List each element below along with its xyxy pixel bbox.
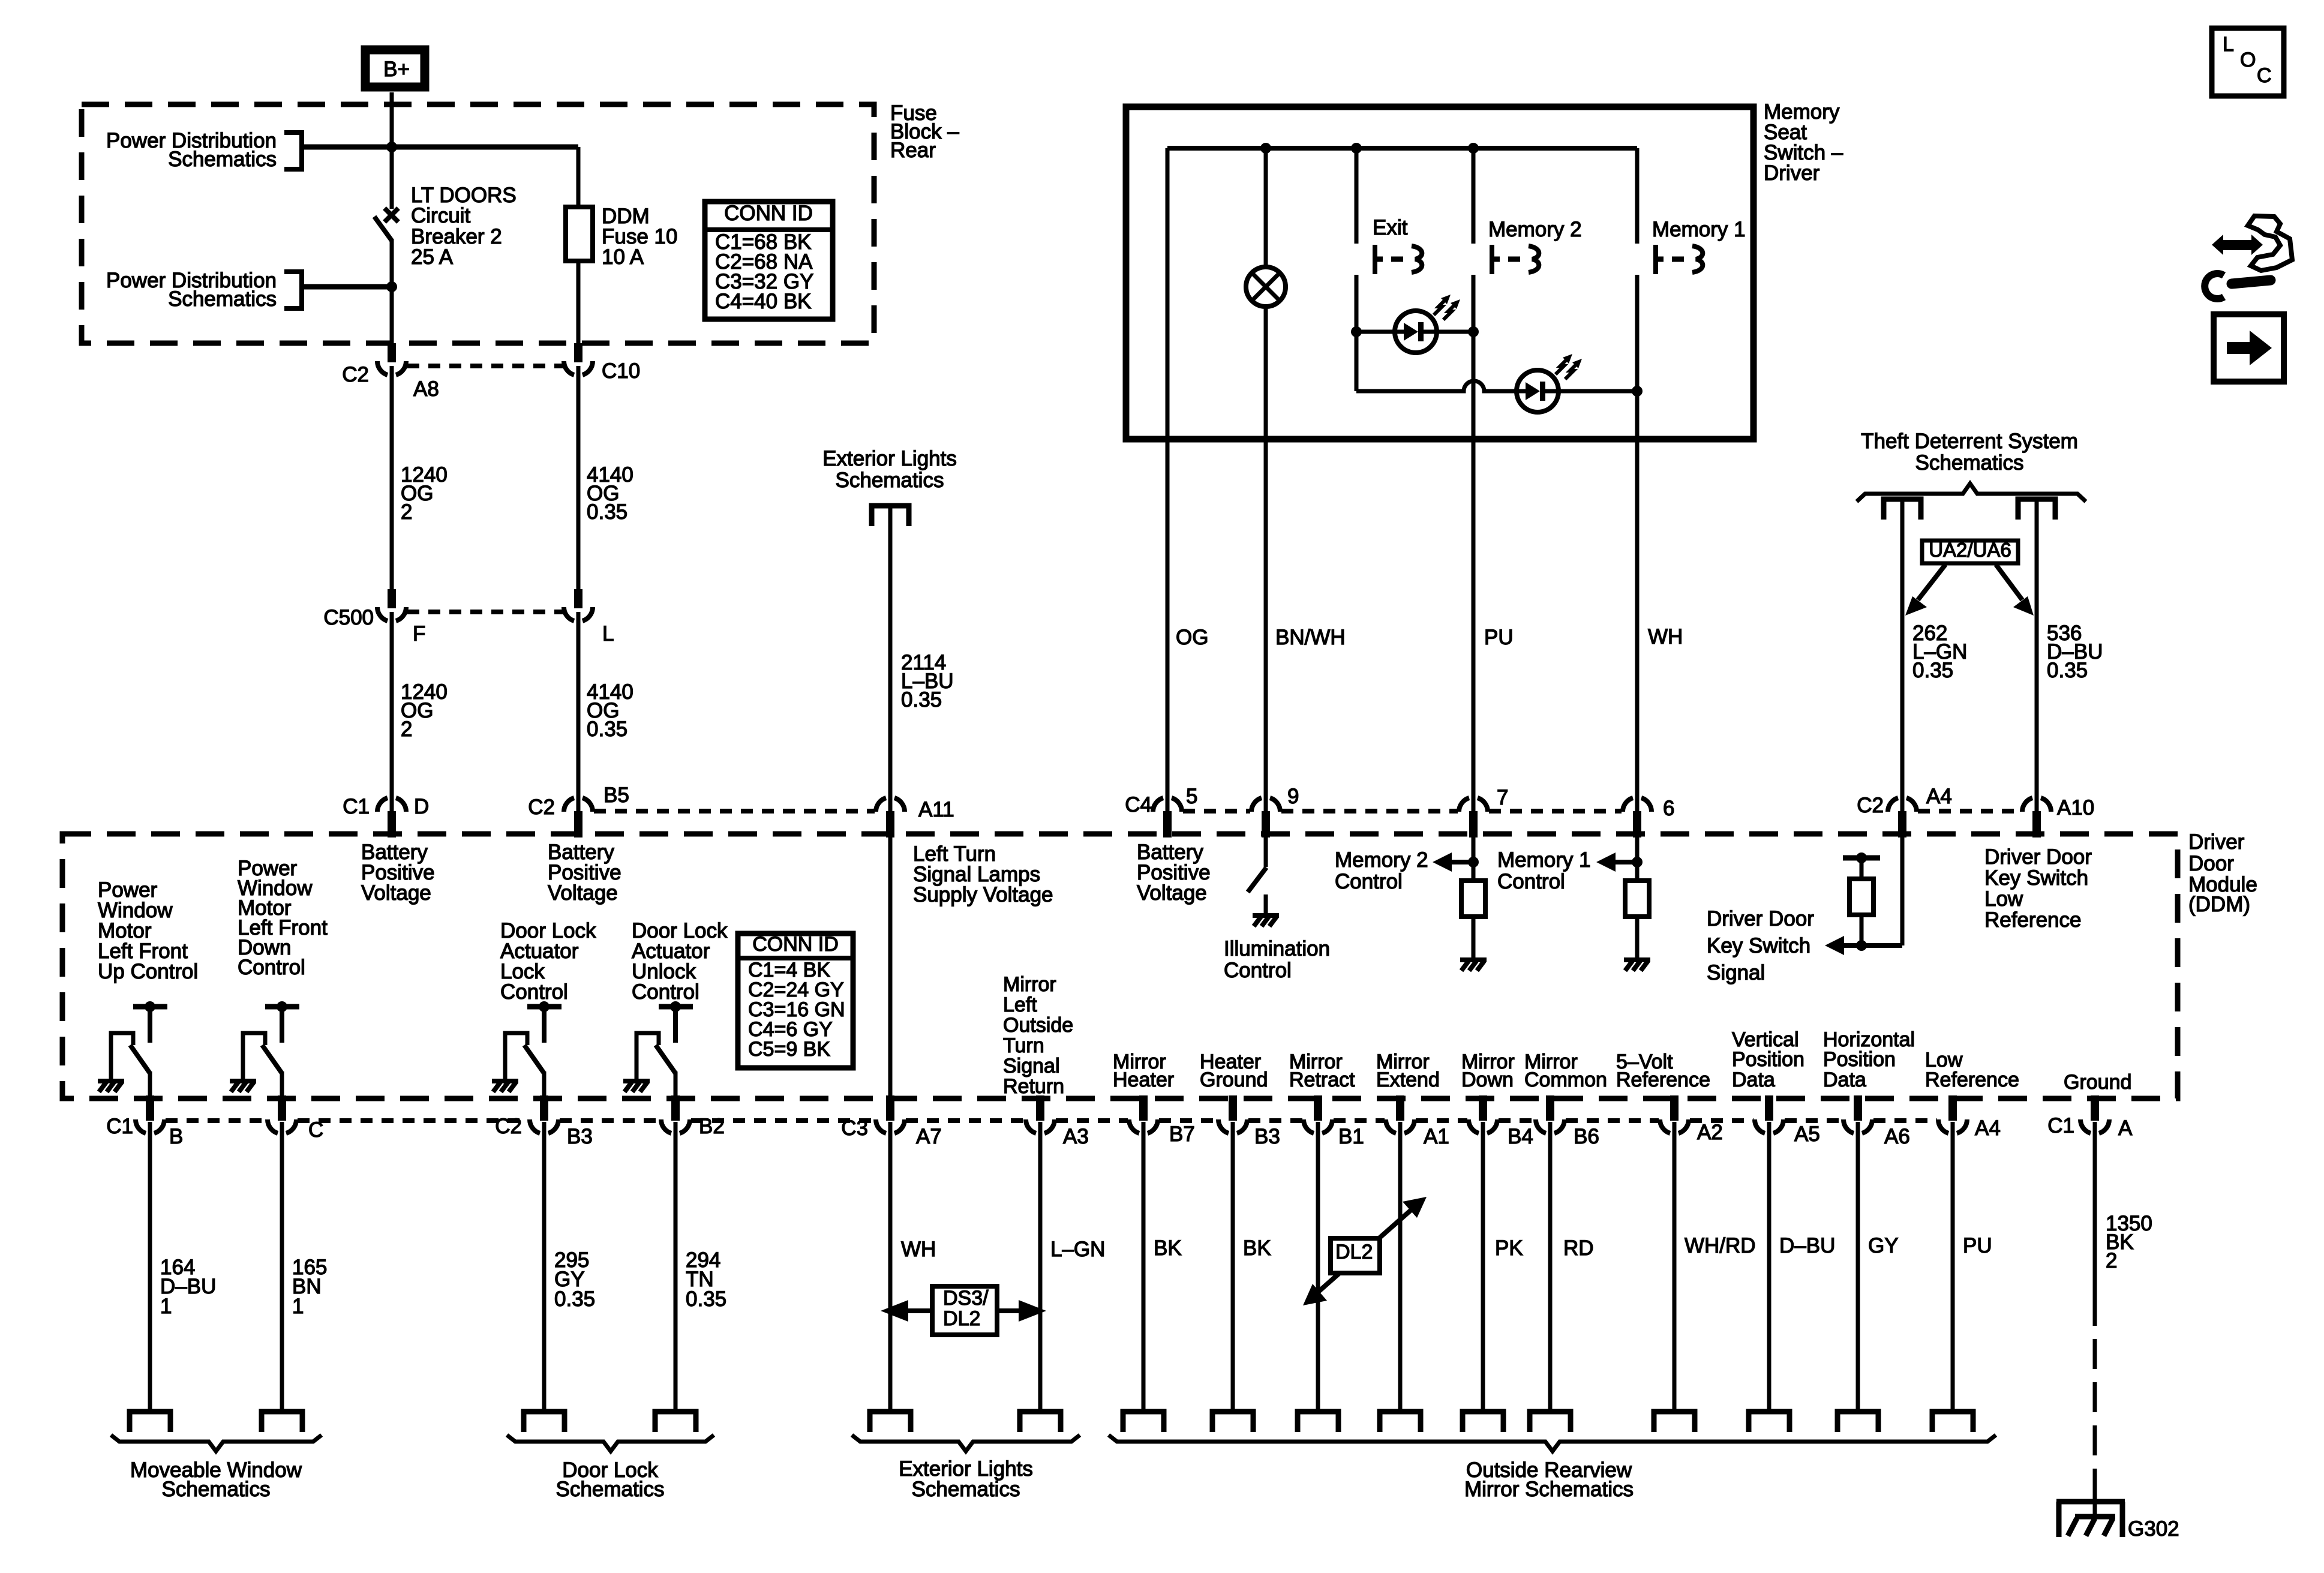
terminal PU [1932, 1412, 1973, 1432]
svg-text:Position: Position [1732, 1048, 1804, 1071]
terminal mirror extend [1380, 1412, 1421, 1432]
ground for power window down [230, 1081, 256, 1092]
switch Memory 1 [1656, 245, 1703, 274]
svg-text:B+: B+ [383, 58, 410, 81]
connector A4 [1938, 1095, 2001, 1140]
connector C10 fuse block [564, 343, 640, 383]
svg-text:Reference: Reference [1984, 908, 2081, 932]
wire B+ down to breaker [390, 92, 394, 209]
connector A11 [876, 798, 954, 837]
ground memory 1 [1624, 960, 1650, 971]
connector A1 [1386, 1095, 1449, 1148]
svg-text:Signal: Signal [1707, 961, 1765, 984]
svg-text:B1: B1 [1338, 1125, 1364, 1148]
terminal 164 D-BU [130, 1412, 170, 1432]
svg-text:PK: PK [1495, 1236, 1523, 1260]
svg-text:Schematics: Schematics [836, 469, 944, 492]
ground memory 2 [1460, 960, 1487, 971]
wire LED1 row [1356, 330, 1395, 334]
brace theft deterrent [1857, 484, 2086, 502]
svg-text:A5: A5 [1794, 1122, 1820, 1146]
svg-text:Schematics: Schematics [168, 287, 277, 311]
svg-text:7: 7 [1497, 786, 1508, 809]
svg-text:Key Switch: Key Switch [1984, 866, 2088, 890]
svg-text:L: L [2223, 33, 2234, 56]
terminal L-GN [1020, 1412, 1061, 1432]
svg-text:Extend: Extend [1376, 1068, 1440, 1091]
terminal RD [1530, 1412, 1571, 1432]
connector C2/B5 [528, 784, 629, 837]
svg-text:2: 2 [401, 500, 412, 524]
DS3/DL2 option box with arrows [881, 1286, 1046, 1335]
svg-text:C2: C2 [528, 795, 555, 819]
svg-text:B: B [169, 1125, 183, 1148]
wire WH/RD [1673, 1122, 1677, 1412]
connector dash line top row [594, 809, 2021, 813]
wire memory1 resistor to ground [1635, 917, 1640, 959]
terminal WH [870, 1412, 911, 1432]
svg-text:G302: G302 [2128, 1517, 2179, 1541]
connector B4 [1469, 1095, 1533, 1148]
svg-text:0.35: 0.35 [901, 688, 942, 712]
svg-text:Circuit: Circuit [411, 204, 470, 227]
svg-text:Outside: Outside [1003, 1014, 1073, 1037]
svg-text:A4: A4 [1975, 1116, 2001, 1140]
circuit breaker CB2 blade [374, 217, 392, 241]
wire memory2 resistor to ground [1472, 917, 1476, 959]
svg-text:C1: C1 [106, 1115, 133, 1138]
switch illumination control [1248, 837, 1266, 914]
svg-text:B2: B2 [699, 1115, 725, 1138]
svg-text:9: 9 [1287, 785, 1299, 808]
terminal WH/RD [1654, 1412, 1695, 1432]
svg-text:Driver Door: Driver Door [1984, 845, 2092, 869]
svg-text:Low: Low [1984, 887, 2023, 911]
svg-text:Up Control: Up Control [98, 960, 198, 983]
svg-text:Voltage: Voltage [1137, 881, 1207, 905]
LED memory indicator [1517, 354, 1582, 412]
svg-text:1: 1 [160, 1295, 172, 1318]
wire A11 to C3 A7 [888, 837, 893, 1097]
wire 1350 BK 2 ground wire [2093, 1122, 2097, 1296]
svg-text:Memory 2: Memory 2 [1335, 848, 1428, 872]
wire bus inside memory switch [1167, 146, 1637, 151]
connector C1/D [343, 795, 429, 837]
brace moveable window [111, 1435, 322, 1451]
wire fuse to connector C10 [577, 147, 581, 207]
svg-text:Signal: Signal [1003, 1055, 1060, 1077]
svg-text:A1: A1 [1424, 1125, 1449, 1148]
wire BK heater ground [1231, 1122, 1235, 1412]
terminal GY [1837, 1412, 1878, 1432]
svg-text:Position: Position [1823, 1048, 1896, 1071]
off-page symbol theft deterrent right [2018, 499, 2055, 520]
wire T-bar to resistor [1860, 858, 1864, 879]
resistor memory 2 [1461, 881, 1485, 917]
svg-text:C4=40 BK: C4=40 BK [715, 290, 812, 313]
svg-text:Voltage: Voltage [548, 881, 618, 905]
wire mirror extend [1398, 1122, 1403, 1412]
connector A6 [1843, 1095, 1910, 1148]
svg-text:5: 5 [1186, 785, 1197, 808]
wire pin7 to memory2 resistor [1472, 837, 1476, 881]
svg-text:RD: RD [1563, 1236, 1594, 1260]
svg-text:C2: C2 [1857, 794, 1884, 817]
switch Exit [1375, 245, 1422, 274]
wire feed bus y=245 from bracket to fuse [302, 145, 578, 150]
node memory2 control junction [1468, 857, 1479, 867]
brace door lock [507, 1435, 714, 1451]
svg-text:A7: A7 [916, 1125, 942, 1148]
svg-text:UA2/UA6: UA2/UA6 [1929, 539, 2011, 561]
resistor memory 1 [1625, 881, 1649, 917]
svg-text:Retract: Retract [1289, 1068, 1355, 1091]
svg-text:L: L [602, 622, 614, 646]
node memory1 control junction [1632, 857, 1643, 867]
node bus dot exit [1351, 143, 1362, 154]
svg-text:Left: Left [1003, 993, 1037, 1016]
terminal D-BU [1749, 1412, 1789, 1432]
wire BK mirror heater [1142, 1122, 1146, 1412]
wire PU [1951, 1122, 1955, 1412]
svg-text:D–BU: D–BU [1779, 1234, 1835, 1257]
LOC icon box [2212, 28, 2284, 96]
arrow UA2 to left wire [1905, 565, 1945, 616]
svg-text:Key Switch: Key Switch [1707, 934, 1810, 957]
svg-text:B6: B6 [1574, 1125, 1599, 1148]
connector dash line C500-L [407, 610, 563, 614]
svg-text:OG: OG [1176, 626, 1208, 649]
wire breaker to connector C2 [390, 239, 394, 344]
wire exit branch upper [1355, 148, 1359, 244]
arrow memory 2 control [1433, 852, 1473, 872]
node bus dot lamp [1260, 143, 1271, 154]
svg-text:2: 2 [401, 718, 412, 741]
svg-text:Memory 1: Memory 1 [1652, 218, 1746, 241]
wire lamp to pin 9 [1264, 306, 1268, 811]
node memory2 LED junction [1468, 326, 1479, 337]
svg-text:Exit: Exit [1373, 216, 1408, 239]
svg-text:0.35: 0.35 [1912, 659, 1953, 682]
svg-text:WH/RD: WH/RD [1685, 1234, 1756, 1257]
bracket Power Distribution 2 [284, 272, 302, 308]
svg-text:Driver: Driver [1764, 161, 1820, 185]
wire mirror retract [1316, 1122, 1320, 1412]
fuse DDM Fuse 10 [566, 207, 593, 261]
svg-text:Driver: Driver [2188, 830, 2245, 854]
CONN ID table (fuse block) [705, 202, 833, 319]
connector dash line C2-C10 [407, 364, 563, 368]
arrow memory 1 control [1596, 852, 1637, 872]
svg-text:Return: Return [1003, 1075, 1064, 1098]
wire memory1 to pin 6 [1635, 275, 1640, 811]
svg-text:L–GN: L–GN [1050, 1238, 1105, 1261]
connector C1/B [106, 1095, 183, 1148]
svg-text:Control: Control [1335, 870, 1403, 893]
svg-text:Schematics: Schematics [162, 1478, 271, 1501]
node junction on feed wire 1 [386, 142, 397, 152]
svg-text:Schematics: Schematics [1915, 451, 2024, 475]
svg-text:Mirror: Mirror [1003, 973, 1056, 996]
CONN ID table (DDM) [738, 933, 853, 1068]
fuse block dashed box [82, 104, 874, 343]
svg-text:Exterior Lights: Exterior Lights [822, 447, 957, 470]
svg-text:A11: A11 [918, 798, 954, 821]
svg-text:Reference: Reference [1925, 1068, 2019, 1091]
wire memory2 upper [1472, 148, 1476, 244]
svg-text:0.35: 0.35 [686, 1287, 726, 1311]
wire LED2 rail with hop [1356, 381, 1517, 391]
wire 262 L-GN to C2 A4 [1900, 502, 1905, 811]
switch door lock [505, 1001, 562, 1097]
wire 2114 L-BU to A11 [888, 508, 893, 811]
wire D-BU [1767, 1122, 1771, 1412]
connector dash line bottom row [166, 1118, 1937, 1123]
brace outside rearview mirror [1109, 1435, 1996, 1451]
wire lamp upper [1264, 148, 1268, 268]
svg-text:0.35: 0.35 [2047, 659, 2088, 682]
svg-text:DL2: DL2 [943, 1307, 980, 1330]
svg-text:GY: GY [1868, 1234, 1899, 1257]
connector B1 [1304, 1095, 1364, 1148]
terminal 295 GY [524, 1412, 565, 1432]
svg-text:Theft Deterrent System: Theft Deterrent System [1861, 430, 2078, 453]
node memory1 rail junction [1632, 386, 1643, 397]
svg-text:Control: Control [500, 980, 568, 1004]
switch power window down [243, 1001, 299, 1097]
svg-text:DL2: DL2 [1335, 1241, 1373, 1263]
svg-text:Schematics: Schematics [168, 148, 277, 171]
connector A10 [2022, 796, 2094, 837]
wire L-GN [1038, 1122, 1043, 1412]
svg-text:Control: Control [1224, 959, 1292, 982]
connector B6 [1536, 1095, 1599, 1148]
terminal mirror retract [1298, 1412, 1338, 1432]
svg-text:Reference: Reference [1616, 1068, 1710, 1091]
ground G302 [2056, 1482, 2125, 1537]
ground for door unlock [623, 1081, 650, 1092]
lamp illumination [1246, 267, 1286, 307]
wire feed y=478 to breaker [302, 284, 392, 290]
wire memory1 upper [1635, 148, 1640, 244]
connector C2/A4 [1857, 785, 1952, 837]
svg-text:BK: BK [1154, 1236, 1182, 1260]
svg-text:B7: B7 [1169, 1122, 1195, 1146]
svg-text:Common: Common [1524, 1068, 1607, 1091]
svg-text:C4: C4 [1125, 793, 1152, 816]
arrow driver door key switch signal [1825, 936, 1902, 955]
connector pin 7 [1459, 786, 1508, 837]
svg-text:WH: WH [1648, 625, 1683, 649]
wire pin6 to memory1 resistor [1635, 837, 1640, 881]
terminal 294 TN [655, 1412, 696, 1432]
svg-text:0.35: 0.35 [554, 1287, 595, 1311]
svg-text:Mirror Schematics: Mirror Schematics [1464, 1478, 1634, 1501]
ground illumination [1253, 915, 1279, 926]
wire L to C2 B5 circuit 4140 OG [577, 612, 581, 811]
terminal BK mirror heater [1123, 1412, 1164, 1432]
wire WH [888, 1122, 893, 1412]
wire 295 GY [542, 1122, 547, 1412]
arrow icon box [2214, 314, 2284, 382]
svg-text:BK: BK [1243, 1236, 1271, 1260]
svg-text:C10: C10 [602, 359, 640, 383]
svg-text:A8: A8 [413, 377, 439, 401]
connector C3/A7 [841, 1095, 942, 1148]
connector C [268, 1095, 323, 1142]
node exit LED junction [1351, 326, 1362, 337]
svg-text:C2: C2 [495, 1115, 522, 1138]
wire C2 A4 to key switch node [1900, 837, 1905, 945]
svg-text:O: O [2240, 49, 2256, 71]
connector C2/A8 fuse block [342, 343, 439, 401]
svg-text:Schematics: Schematics [556, 1478, 665, 1501]
svg-text:Door: Door [2188, 852, 2234, 875]
connector pin 6 [1623, 797, 1674, 837]
svg-text:DS3/: DS3/ [943, 1287, 989, 1310]
connector B7 [1129, 1095, 1195, 1146]
resistor key switch [1849, 879, 1873, 915]
svg-text:1: 1 [292, 1295, 304, 1318]
arrow UA6 to right wire [1996, 565, 2034, 616]
svg-text:10 A: 10 A [602, 245, 644, 269]
key switch T-bar [1843, 852, 1880, 863]
wire PK [1481, 1122, 1485, 1412]
svg-text:Driver Door: Driver Door [1707, 907, 1814, 930]
svg-text:CONN ID: CONN ID [724, 202, 813, 225]
svg-text:Illumination: Illumination [1224, 937, 1330, 960]
wire 165 BN [280, 1122, 284, 1412]
node key switch signal [1856, 940, 1867, 951]
svg-text:Memory 1: Memory 1 [1497, 848, 1591, 872]
svg-text:PU: PU [1963, 1234, 1992, 1257]
off-page symbol Exterior Lights [872, 506, 909, 526]
connector C1/A [2047, 1095, 2133, 1140]
wire memory2 to pin 7 [1472, 275, 1476, 811]
connector pin 9 [1251, 785, 1299, 837]
B+ battery feed symbol [365, 50, 425, 87]
UA2/UA6 option box [1922, 539, 2018, 563]
connector C500/F [323, 589, 425, 646]
terminal BK heater ground [1212, 1412, 1253, 1432]
ground for power window up [98, 1081, 124, 1092]
svg-text:B3: B3 [1254, 1125, 1280, 1148]
svg-text:A6: A6 [1884, 1125, 1910, 1148]
svg-text:A10: A10 [2057, 796, 2094, 819]
svg-text:Rear: Rear [890, 139, 936, 162]
ground for door lock [492, 1081, 518, 1092]
switch door unlock [636, 1001, 693, 1097]
svg-text:Control: Control [238, 956, 305, 979]
svg-text:F: F [413, 622, 425, 646]
wire 536 D-BU to A10 [2035, 502, 2039, 811]
svg-text:BN/WH: BN/WH [1275, 626, 1346, 649]
wire OG bus to pin 5 [1166, 148, 1170, 811]
svg-text:Memory 2: Memory 2 [1488, 218, 1582, 241]
svg-text:C1: C1 [343, 795, 370, 818]
svg-text:WH: WH [901, 1238, 936, 1261]
brace exterior lights [852, 1435, 1080, 1451]
svg-text:A2: A2 [1697, 1121, 1723, 1144]
connector C4/5 [1125, 785, 1197, 837]
svg-text:Voltage: Voltage [361, 881, 431, 905]
Driver Door Module dashed box [62, 834, 2178, 1098]
svg-text:A3: A3 [1063, 1125, 1089, 1148]
svg-text:Ground: Ground [2064, 1071, 2131, 1094]
switch Memory 2 [1492, 245, 1539, 274]
svg-text:B5: B5 [603, 784, 629, 807]
connector B2 [661, 1095, 725, 1138]
bracket Power Distribution 1 [284, 133, 302, 169]
svg-text:0.35: 0.35 [587, 500, 627, 524]
svg-text:Data: Data [1732, 1068, 1775, 1091]
wire 294 TN [674, 1122, 678, 1412]
svg-text:Supply Voltage: Supply Voltage [913, 883, 1053, 906]
connector A2 [1660, 1095, 1723, 1144]
connector A3 [1026, 1095, 1089, 1148]
svg-text:C2: C2 [342, 363, 369, 386]
svg-text:25 A: 25 A [411, 245, 454, 269]
connector A5 [1755, 1095, 1820, 1146]
svg-text:C5=9 BK: C5=9 BK [748, 1038, 830, 1061]
switch power window up [111, 1001, 167, 1097]
wrench route icon [2205, 216, 2292, 299]
LED exit indicator [1395, 295, 1460, 353]
connector L inline [564, 589, 614, 646]
wire C10 to L circuit 4140 OG [577, 366, 581, 590]
off-page symbol theft deterrent left [1884, 499, 1921, 520]
connector C2/B3 [495, 1095, 593, 1148]
svg-text:C500: C500 [323, 606, 374, 629]
wire 164 D-BU [148, 1122, 152, 1412]
svg-text:Down: Down [1461, 1068, 1514, 1091]
DL2 option box with arrows [1303, 1197, 1427, 1305]
svg-text:A4: A4 [1926, 785, 1952, 808]
svg-text:PU: PU [1484, 626, 1514, 649]
svg-text:Turn: Turn [1003, 1034, 1044, 1057]
svg-text:2: 2 [2106, 1249, 2117, 1272]
svg-text:C1: C1 [2047, 1114, 2074, 1137]
wire C2 to C500 circuit 1240 OG [390, 366, 394, 590]
svg-text:B3: B3 [567, 1125, 593, 1148]
node junction on breaker wire [386, 281, 397, 292]
svg-text:Control: Control [632, 980, 699, 1004]
svg-text:Schematics: Schematics [912, 1478, 1020, 1501]
svg-text:6: 6 [1663, 797, 1674, 820]
svg-text:Control: Control [1497, 870, 1565, 893]
wire RD [1548, 1122, 1553, 1412]
node bus dot memory2 [1468, 143, 1479, 154]
wire exit branch lower [1355, 275, 1359, 391]
svg-text:C: C [2257, 64, 2272, 87]
wire GY [1856, 1122, 1860, 1412]
svg-text:D: D [414, 795, 429, 818]
svg-text:CONN ID: CONN ID [752, 933, 839, 956]
svg-text:0.35: 0.35 [587, 718, 627, 741]
svg-text:B4: B4 [1508, 1125, 1533, 1148]
svg-text:A: A [2118, 1116, 2133, 1140]
wire resistor to signal node [1860, 915, 1864, 945]
svg-text:Ground: Ground [1200, 1068, 1268, 1091]
memory seat switch box [1126, 107, 1753, 439]
circuit breaker CB2 contact X [385, 208, 398, 222]
terminal PK [1463, 1412, 1503, 1432]
terminal 165 BN [262, 1412, 302, 1432]
svg-text:Heater: Heater [1113, 1068, 1174, 1091]
connector B3 [1218, 1095, 1280, 1148]
svg-text:Data: Data [1823, 1068, 1866, 1091]
wire C500 to C1 D circuit 1240 OG [390, 612, 394, 811]
